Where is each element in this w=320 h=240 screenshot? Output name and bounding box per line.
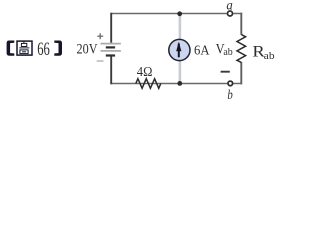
battery V1 long plate (+) bbox=[101, 50, 121, 52]
battery V1 short plate (-) bbox=[106, 54, 115, 56]
current source I1 arrow shaft bbox=[178, 44, 180, 58]
svg-text:6A: 6A bbox=[194, 43, 210, 58]
current source I1 bottom lead bbox=[179, 60, 182, 83]
junction dot bottom node bbox=[177, 81, 182, 86]
battery V1 bottom lead bbox=[110, 57, 112, 85]
figure label character 圖 bbox=[17, 41, 32, 55]
battery V1 top lead bbox=[110, 13, 112, 43]
figure label bracket 】 bbox=[54, 41, 62, 56]
terminal b open circle bbox=[228, 81, 233, 86]
wire: top horizontal bbox=[111, 13, 242, 15]
current source I1 top lead bbox=[179, 14, 182, 40]
battery + polarity bbox=[97, 33, 103, 39]
resistor Rab vertical zigzag bbox=[237, 35, 246, 63]
polarity minus for Vab bbox=[221, 71, 230, 73]
svg-text:ab: ab bbox=[223, 47, 232, 58]
junction dot top node bbox=[177, 11, 182, 16]
wire: bottom horizontal bbox=[111, 83, 242, 85]
svg-text:b: b bbox=[227, 88, 232, 103]
figure label bracket 【 bbox=[7, 41, 15, 56]
battery V1 long plate (+) bbox=[101, 43, 121, 45]
battery - polarity bbox=[97, 60, 104, 62]
svg-text:a: a bbox=[226, 0, 232, 14]
svg-text:4Ω: 4Ω bbox=[137, 65, 153, 80]
svg-text:66: 66 bbox=[37, 39, 50, 60]
svg-text:ab: ab bbox=[264, 50, 275, 62]
svg-text:20V: 20V bbox=[77, 41, 98, 57]
current source I1 circle bbox=[169, 39, 190, 60]
wire: right vertical upper lead bbox=[240, 13, 242, 35]
battery V1 short plate (-) bbox=[106, 46, 115, 48]
terminal a open circle bbox=[228, 11, 233, 16]
current source I1 arrow head bbox=[176, 42, 181, 52]
resistor 4 ohm horizontal zigzag bbox=[136, 79, 161, 89]
wire: right vertical lower lead bbox=[240, 62, 242, 84]
